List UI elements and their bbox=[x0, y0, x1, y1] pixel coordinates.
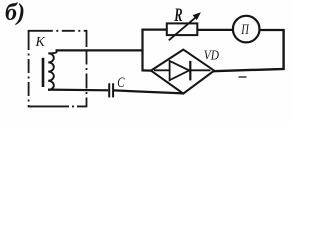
meter П circle bbox=[233, 16, 260, 43]
wire: right vertical bbox=[282, 29, 284, 70]
diode VD triangle bbox=[170, 61, 190, 80]
wire: resistor to meter bbox=[197, 29, 233, 31]
relay enclosure box K: top edge (dash-dot) bbox=[28, 30, 87, 32]
relay enclosure box K: bottom edge (dash-dot) bbox=[28, 105, 87, 107]
relay enclosure box K: right edge (dash-dot) bbox=[86, 30, 88, 107]
wire: top bus junction to resistor bbox=[142, 29, 168, 31]
capacitor C bbox=[108, 83, 110, 97]
node: junction vertical link bbox=[141, 29, 143, 71]
resistor R (rheostat) body bbox=[167, 23, 198, 35]
wire: coil bottom to capacitor bbox=[48, 88, 108, 91]
wire: junction to bridge left vertex bbox=[142, 69, 152, 71]
svg-text:б): б) bbox=[5, 0, 25, 26]
stray mark bbox=[239, 76, 247, 78]
svg-text:K: K bbox=[35, 35, 46, 50]
resistor R arrow bbox=[169, 16, 198, 41]
coil core bbox=[42, 58, 45, 87]
diode VD cathode bar bbox=[189, 61, 191, 81]
svg-text:C: C bbox=[117, 75, 125, 91]
wire: coil top to junction bbox=[56, 49, 144, 51]
svg-text:VD: VD bbox=[204, 48, 219, 63]
wire: bridge right vertex to right corner bbox=[214, 69, 285, 71]
relay enclosure box K: left edge (dash-dot) bbox=[28, 30, 30, 107]
diode VD lead line bbox=[154, 69, 211, 71]
svg-text:П: П bbox=[240, 22, 249, 38]
wire: capacitor to bridge bottom vertex bbox=[114, 90, 183, 93]
coil K winding bbox=[48, 50, 56, 90]
svg-text:R: R bbox=[174, 6, 183, 26]
bridge rectifier diamond bbox=[151, 50, 214, 94]
label R bbox=[174, 6, 183, 26]
wire: meter to right corner bbox=[260, 29, 285, 31]
